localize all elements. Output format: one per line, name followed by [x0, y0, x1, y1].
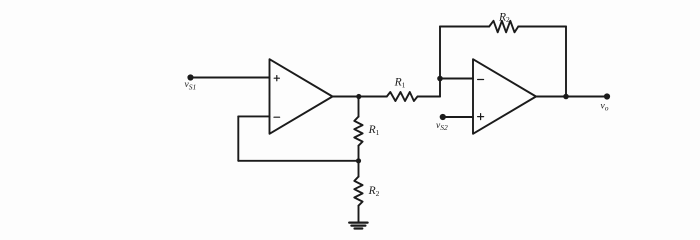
wire vS1 to U1 + input [191, 77, 270, 79]
wire vS2 to U2 + input [443, 116, 473, 118]
wire U1 output [333, 96, 387, 98]
node junction at U1 output [356, 94, 361, 99]
svg-text:vo: vo [601, 101, 609, 112]
wire R1 to corner [418, 96, 440, 98]
wire feedback vertical [237, 116, 239, 160]
op-amp U1 [270, 59, 333, 134]
node divider junction [356, 158, 361, 163]
wire top feedback right [518, 26, 566, 28]
op-amp U2 [473, 59, 536, 134]
U1 + pin symbol [274, 76, 279, 81]
wire top feedback left [440, 26, 489, 28]
wire node to U2 - input [440, 78, 473, 80]
svg-text:R2: R2 [498, 11, 510, 24]
terminal vS2 [440, 114, 446, 120]
U1 - pin symbol [274, 116, 280, 118]
wire divider to ground [358, 206, 360, 222]
terminal vS1 [187, 74, 193, 80]
node U2 inverting input [437, 76, 443, 82]
resistor R2 divider [354, 177, 362, 206]
wire divider top [358, 97, 360, 117]
wire U2 output [536, 96, 607, 98]
svg-text:R1: R1 [368, 124, 380, 137]
U2 - pin symbol [478, 79, 484, 81]
resistor R2 feedback [489, 21, 518, 33]
node output junction [563, 94, 569, 100]
svg-text:R2: R2 [368, 185, 380, 198]
wire feedback down to output [565, 27, 567, 97]
svg-text:R1: R1 [394, 77, 406, 90]
resistor R1 horizontal [387, 92, 418, 101]
wire U1 - input to feedback corner [238, 115, 269, 117]
wire vertical at U2 - node [439, 27, 441, 97]
wire feedback bottom to divider node [238, 160, 358, 162]
svg-text:vS2: vS2 [436, 121, 448, 132]
ground [349, 223, 367, 229]
wire divider middle [358, 146, 360, 177]
svg-text:vS1: vS1 [185, 80, 197, 91]
terminal vo [604, 93, 610, 99]
U2 + pin symbol [478, 114, 484, 120]
resistor R1 divider [354, 117, 362, 146]
